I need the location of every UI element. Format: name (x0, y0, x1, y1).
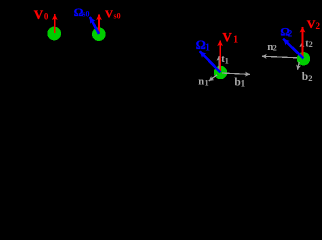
svg-text:s0: s0 (114, 11, 121, 20)
svg-text:V: V (222, 29, 232, 44)
svg-text:1: 1 (205, 43, 210, 54)
svg-text:s0: s0 (82, 10, 89, 19)
svg-text:n: n (198, 76, 204, 87)
svg-text:1: 1 (205, 79, 209, 88)
svg-text:V: V (34, 7, 44, 22)
svg-text:2: 2 (316, 21, 321, 31)
svg-text:2: 2 (308, 73, 312, 83)
svg-text:1: 1 (225, 56, 229, 65)
svg-text:1: 1 (241, 79, 246, 89)
svg-text:2: 2 (288, 29, 293, 39)
svg-text:2: 2 (273, 44, 277, 53)
svg-text:V: V (307, 17, 316, 31)
svg-text:1: 1 (233, 35, 238, 46)
svg-text:V: V (105, 9, 113, 21)
svg-text:2: 2 (309, 40, 313, 49)
svg-text:0: 0 (44, 11, 49, 21)
